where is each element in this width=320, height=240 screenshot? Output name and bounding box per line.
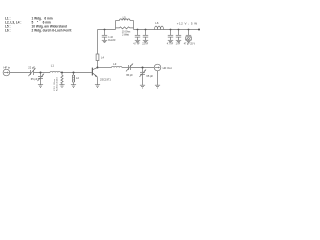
inductor L2 (to ground) [72, 73, 79, 85]
capacitor electrolytic 47uF 25V [184, 29, 196, 46]
node junction output [142, 67, 144, 69]
wire rect to collector node [97, 61, 99, 68]
wire supply vertical to collector [97, 30, 99, 55]
capacitor 4.7nF (right group) [167, 29, 174, 46]
svg-text:L6 :: L6 : [5, 29, 11, 33]
svg-text:L5: L5 [123, 15, 127, 19]
transistor Q1 2SC1971 [92, 68, 112, 85]
node junction resistor tap [61, 72, 63, 74]
wire collector to L3 [98, 67, 112, 69]
capacitor trimmer 65pF (output shunt) [140, 68, 154, 86]
capacitor 1nF (right group) [176, 29, 182, 46]
resistor R 10 Ohm 2 Watt [116, 27, 134, 37]
capacitor trimmer 65pF (series output) [126, 63, 133, 77]
wire supply rail middle segment [134, 29, 200, 31]
node +12V terminal [198, 29, 200, 31]
legend line L6 [5, 29, 71, 33]
svg-text:22 nF: 22 nF [142, 44, 148, 46]
ground (input shunt trimmer) [38, 85, 43, 88]
node HF in connector [3, 65, 11, 75]
svg-text:+12 V ; 5 W: +12 V ; 5 W [177, 21, 198, 25]
wire connector shield to ground [157, 71, 159, 85]
svg-text:HF in: HF in [4, 65, 11, 69]
svg-text:65 pF: 65 pF [31, 77, 38, 81]
node HF Out connector [154, 64, 172, 71]
svg-text:65 pF: 65 pF [146, 74, 153, 78]
svg-text:Kohleschicht: Kohleschicht [56, 77, 59, 91]
svg-text:65 pF: 65 pF [126, 73, 133, 77]
capacitor 1nF Durchf [102, 29, 117, 43]
svg-text:L1: L1 [51, 64, 55, 68]
capacitor 22nF [142, 29, 148, 46]
inductor L4 (ferrite rectangle) [96, 54, 104, 61]
svg-text:2 Wdg. durch 6-Loch Ferrit: 2 Wdg. durch 6-Loch Ferrit [32, 29, 72, 33]
svg-text:2SC1971: 2SC1971 [100, 78, 111, 82]
value label vertical (resistor) [54, 77, 59, 91]
wire input [10, 72, 31, 74]
svg-text:L6: L6 [155, 21, 159, 25]
resistor base bias (vertical) [61, 73, 63, 85]
legend line L1 [5, 17, 53, 21]
node junction input [40, 72, 42, 74]
svg-text:4.7 nF: 4.7 nF [133, 44, 140, 46]
svg-text:Durchf.: Durchf. [108, 39, 116, 42]
capacitor trimmer 65pF (input shunt) [31, 73, 45, 85]
wire to L1 [34, 72, 51, 74]
inductor L3 [112, 62, 122, 68]
wire supply rail left segment [98, 29, 116, 31]
ground (output shunt trimmer) [140, 85, 145, 88]
wire trimmer to output [131, 67, 155, 69]
svg-text:2 Watt: 2 Watt [122, 34, 129, 37]
ground (HF Out connector) [155, 85, 160, 88]
wire L3 to trimmer [122, 67, 129, 69]
inductor L1 [50, 64, 60, 73]
svg-text:L3: L3 [113, 62, 117, 66]
node collector [97, 67, 99, 69]
inductor L6 [155, 21, 164, 30]
svg-text:1 nF: 1 nF [176, 44, 181, 46]
svg-text:47 µF 25 V: 47 µF 25 V [184, 44, 196, 46]
ground (emitter) [95, 85, 100, 88]
legend line L5 [5, 25, 67, 29]
ground (bias resistor) [59, 85, 64, 88]
svg-text:HF Out: HF Out [163, 66, 172, 70]
svg-text:4.7 nF: 4.7 nF [167, 44, 174, 46]
inductor L5 (wound on resistor) [116, 15, 134, 29]
ground (L2) [71, 85, 76, 88]
wire L1 to base [60, 72, 91, 74]
node junction L2 tap [73, 72, 75, 74]
capacitor trimmer 22pF (series input) [28, 65, 36, 76]
capacitor 4.7nF (left pair) [133, 29, 140, 46]
legend line L2 L3 L4 [5, 21, 51, 25]
